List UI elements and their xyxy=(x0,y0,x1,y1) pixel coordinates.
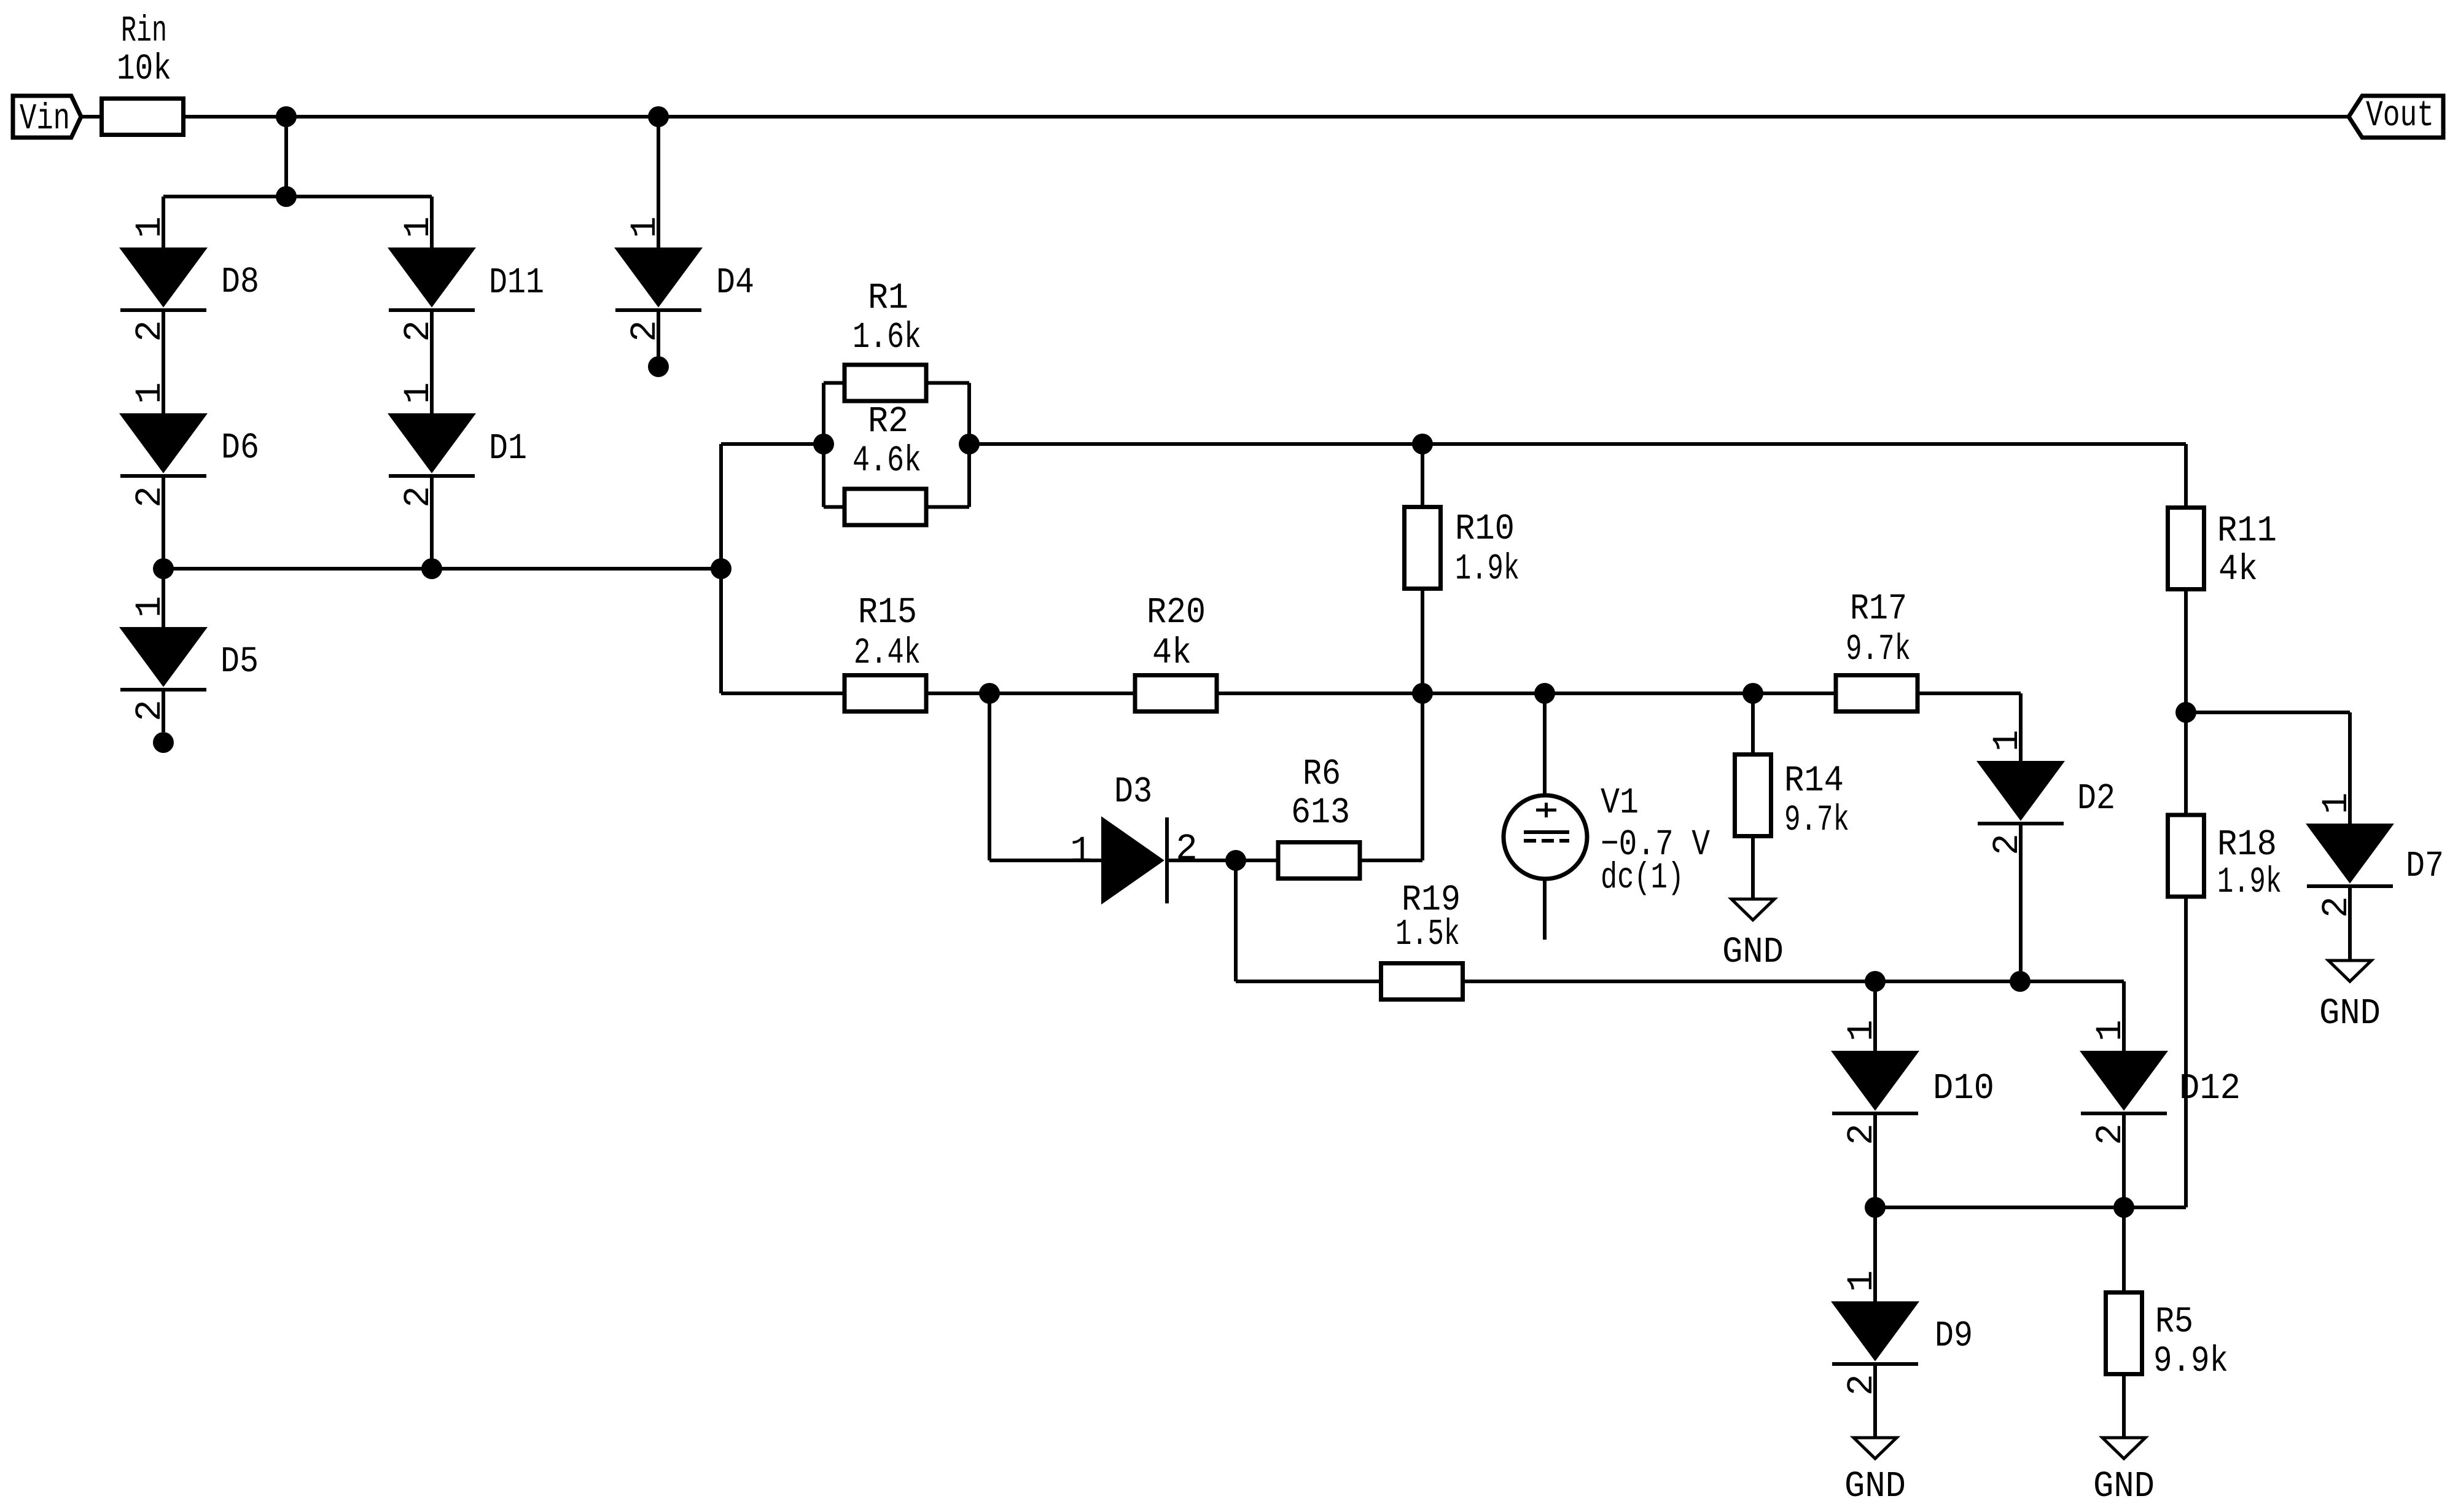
svg-text:R1: R1 xyxy=(868,278,908,319)
wire to D3 anode xyxy=(989,859,1102,862)
wire Vin to Rin xyxy=(81,115,103,119)
node junction diode rail xyxy=(276,186,297,207)
node junction R14 top xyxy=(1742,683,1763,704)
wire R18 bottom riser xyxy=(2184,895,2188,1207)
node junction R15-R20 xyxy=(979,683,1000,704)
node junction R10 top xyxy=(1412,434,1433,454)
diode D7 xyxy=(2307,792,2444,918)
svg-text:9.7k: 9.7k xyxy=(1846,629,1911,670)
svg-text:GND: GND xyxy=(2319,993,2381,1034)
node junction D4 top xyxy=(648,106,669,127)
node junction top-left xyxy=(276,106,297,127)
svg-text:1: 1 xyxy=(1841,1019,1883,1041)
node junction R10 bottom xyxy=(1412,683,1433,704)
wire riser x1174 xyxy=(719,444,723,693)
wire D2 anode xyxy=(2019,693,2023,762)
svg-text:R6: R6 xyxy=(1303,754,1341,795)
resistor R11 xyxy=(2168,508,2277,591)
svg-text:R14: R14 xyxy=(1784,760,1844,801)
wire bottom rail of diode bank xyxy=(163,567,721,571)
svg-text:1: 1 xyxy=(130,216,171,238)
resistor R15 xyxy=(845,592,926,712)
wire column up to R15 row xyxy=(1421,693,1424,860)
svg-text:D11: D11 xyxy=(489,262,544,303)
wire R1R2 left bracket xyxy=(822,383,825,507)
svg-text:R2: R2 xyxy=(868,401,908,442)
svg-text:R17: R17 xyxy=(1850,588,1907,629)
resistor R5 xyxy=(2106,1293,2229,1382)
node junction R11-R18-D7 xyxy=(2175,702,2196,723)
node junction V1 top xyxy=(1534,683,1555,704)
wire to D4 anode xyxy=(657,117,660,248)
ground GND under R5 xyxy=(2093,1438,2155,1507)
wire Rin to Vout xyxy=(184,115,2349,119)
diode D6 xyxy=(120,382,259,507)
svg-text:Vin: Vin xyxy=(20,98,70,139)
wire D9 anode xyxy=(1873,1207,1877,1302)
resistor R17 xyxy=(1836,588,1918,712)
wire R15 row left xyxy=(721,692,846,695)
svg-text:D3: D3 xyxy=(1114,771,1152,813)
diode D1 xyxy=(389,382,527,507)
resistor R2 xyxy=(845,401,926,525)
svg-text:1: 1 xyxy=(2090,1019,2131,1041)
wire D4 cathode terminal xyxy=(657,310,660,357)
svg-text:D12: D12 xyxy=(2179,1068,2241,1109)
resistor R20 xyxy=(1135,592,1217,712)
svg-text:D5: D5 xyxy=(220,641,259,682)
wire R1R2 node to R11 column xyxy=(969,442,2186,446)
svg-text:Rin: Rin xyxy=(121,10,167,52)
svg-text:4.6k: 4.6k xyxy=(852,440,921,481)
flag Vin xyxy=(13,96,81,139)
wire D12 anode xyxy=(2122,981,2126,1051)
wire R6 to column xyxy=(1359,859,1422,862)
svg-text:R15: R15 xyxy=(858,592,917,633)
svg-text:10k: 10k xyxy=(117,49,171,90)
flag Vout xyxy=(2349,95,2443,138)
svg-text:R5: R5 xyxy=(2155,1301,2193,1342)
wire D6 to node xyxy=(162,476,165,569)
ground GND under R14 xyxy=(1722,899,1784,973)
svg-text:D8: D8 xyxy=(221,262,259,303)
svg-text:D1: D1 xyxy=(489,428,527,469)
wire D11 to D1 xyxy=(430,310,434,414)
svg-text:1: 1 xyxy=(130,596,171,617)
svg-text:1: 1 xyxy=(1070,831,1091,872)
wire to D11 anode xyxy=(430,197,434,248)
svg-text:9.7k: 9.7k xyxy=(1784,800,1849,841)
wire D10 anode xyxy=(1873,981,1877,1051)
wire to D7 xyxy=(2186,711,2350,714)
svg-text:1: 1 xyxy=(398,216,439,238)
diode D2 xyxy=(1978,730,2115,855)
wire R11 top xyxy=(2184,444,2188,509)
resistor R6 xyxy=(1278,754,1360,879)
svg-text:D2: D2 xyxy=(2077,778,2115,819)
wire D12 cathode down xyxy=(2122,1113,2126,1207)
resistor R19 xyxy=(1381,879,1463,1000)
voltage source V1 xyxy=(1504,693,1710,940)
diode D8 xyxy=(120,216,259,341)
svg-text:1: 1 xyxy=(625,216,666,238)
node R1R2 right xyxy=(959,434,980,454)
svg-text:R11: R11 xyxy=(2217,510,2277,551)
svg-text:D7: D7 xyxy=(2406,846,2444,887)
svg-text:D10: D10 xyxy=(1933,1068,1994,1109)
wire D2 cathode down xyxy=(2019,824,2023,981)
svg-text:Vout: Vout xyxy=(2366,95,2434,136)
svg-text:1: 1 xyxy=(2316,792,2357,814)
wire R5 to ground xyxy=(2122,1373,2126,1438)
wire R15 to R20 xyxy=(925,692,1136,695)
wire down to D3 row xyxy=(988,693,991,860)
wire R20 to R17 xyxy=(1215,692,1835,695)
svg-text:1.9k: 1.9k xyxy=(1455,548,1520,590)
wire D7 to ground xyxy=(2348,886,2352,961)
wire R11 bottom xyxy=(2184,588,2188,712)
diode D12 xyxy=(2081,1019,2241,1145)
wire riser to R1R2 node xyxy=(721,442,824,446)
svg-text:1: 1 xyxy=(1841,1270,1883,1292)
terminal dot D4 xyxy=(648,356,669,377)
wire bottom rail xyxy=(1875,1206,2186,1209)
wire to R19 xyxy=(1236,980,1382,983)
svg-text:GND: GND xyxy=(1722,932,1784,973)
diode D10 xyxy=(1832,1019,1994,1145)
diode D9 xyxy=(1832,1270,1973,1395)
node junction D10 top xyxy=(1865,971,1886,992)
svg-text:1.9k: 1.9k xyxy=(2217,862,2282,903)
svg-text:D6: D6 xyxy=(221,427,259,469)
svg-text:1.5k: 1.5k xyxy=(1395,914,1460,955)
svg-text:V1: V1 xyxy=(1601,782,1639,824)
diode D11 xyxy=(389,216,544,341)
node junction D3-R6-R19 xyxy=(1225,850,1246,871)
wire D9 to ground xyxy=(1873,1364,1877,1438)
ground GND under D9 xyxy=(1844,1438,1906,1507)
resistor R10 xyxy=(1405,444,1520,693)
wire D8 to D6 xyxy=(162,310,165,414)
svg-text:R10: R10 xyxy=(1455,509,1515,550)
diode D3 xyxy=(1070,771,1197,903)
wire R5 top xyxy=(2122,1207,2126,1293)
wire R17 to D2 xyxy=(1918,692,2021,695)
wire R19 column down xyxy=(1234,860,1238,981)
wire D1 to node xyxy=(430,476,434,569)
svg-text:dc(1): dc(1) xyxy=(1601,857,1684,898)
node junction D10-D9 xyxy=(1865,1197,1886,1218)
node junction D12-R5 xyxy=(2113,1197,2134,1218)
svg-text:613: 613 xyxy=(1291,792,1350,833)
node junction D6-D5 xyxy=(153,558,174,579)
svg-text:1: 1 xyxy=(1987,730,2028,751)
svg-text:R20: R20 xyxy=(1147,592,1206,633)
resistor R14 xyxy=(1735,693,1850,899)
svg-text:9.9k: 9.9k xyxy=(2153,1341,2228,1382)
svg-text:1: 1 xyxy=(398,382,439,403)
svg-text:2: 2 xyxy=(1176,828,1197,870)
svg-text:GND: GND xyxy=(2093,1466,2155,1507)
node junction rail to riser xyxy=(711,558,732,579)
wire R1R2 right bracket xyxy=(967,383,971,507)
svg-text:R18: R18 xyxy=(2217,824,2277,865)
wire D5 cathode terminal xyxy=(162,690,165,732)
svg-text:1: 1 xyxy=(130,382,171,403)
ground GND under D7 xyxy=(2319,961,2381,1034)
node R1R2 left xyxy=(813,434,834,454)
wire R19 to D12 corner xyxy=(1462,980,2124,983)
wire D3 to R6 xyxy=(1167,859,1279,862)
diode D5 xyxy=(120,569,259,722)
diode D4 xyxy=(615,216,754,341)
resistor R1 xyxy=(845,278,926,401)
wire down from top to diode bank xyxy=(284,117,288,197)
node junction D2-D12 xyxy=(2010,971,2031,992)
wire diode bank top rail xyxy=(163,195,432,198)
node junction D1 cathode xyxy=(421,558,442,579)
resistor R18 xyxy=(2168,712,2282,903)
wire to D8 anode xyxy=(162,197,165,248)
resistor Rin xyxy=(102,10,184,135)
svg-text:2.4k: 2.4k xyxy=(854,633,921,674)
svg-text:GND: GND xyxy=(1844,1466,1906,1507)
wire D10 cathode down xyxy=(1873,1113,1877,1207)
svg-text:4k: 4k xyxy=(2218,549,2258,590)
svg-text:1.6k: 1.6k xyxy=(852,317,921,358)
terminal dot D5 xyxy=(153,732,174,753)
svg-text:D9: D9 xyxy=(1935,1315,1973,1357)
svg-text:D4: D4 xyxy=(716,262,754,303)
svg-text:4k: 4k xyxy=(1152,633,1192,674)
